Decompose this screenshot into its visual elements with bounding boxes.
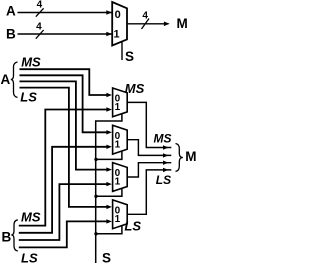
- brace for M bundle: [176, 144, 183, 172]
- svg-text:S: S: [102, 251, 111, 265]
- svg-text:M: M: [185, 149, 196, 164]
- arrowhead A.2 into mux2: [106, 130, 112, 134]
- wire S stub to mux U3: [96, 151, 122, 159]
- svg-text:4: 4: [142, 10, 148, 21]
- arrowhead B.LS into mux4: [106, 219, 112, 223]
- svg-text:B: B: [6, 26, 16, 41]
- wire A bit 3 to mux3 I0: [20, 81, 107, 169]
- wire mux U2 output to M bundle MS: [128, 102, 172, 147]
- arrowhead M bundle LS: [163, 168, 169, 172]
- svg-text:MS: MS: [21, 55, 41, 70]
- wire S stub to mux U5: [96, 226, 122, 234]
- mux U4 (bit 3 2x1 mux): [113, 163, 128, 192]
- arrowhead A.LS into mux4: [106, 205, 112, 209]
- wire B bit 3 to mux3 I1: [19, 184, 107, 240]
- arrowhead B.2 into mux2: [106, 145, 112, 149]
- wire mux U3 output to M bundle bit2: [128, 140, 172, 156]
- arrowhead A into mux I0: [106, 10, 112, 15]
- wire M output (top): [128, 23, 169, 25]
- arrowhead M bundle MS: [163, 145, 169, 149]
- arrowhead M bundle bit2: [163, 153, 169, 157]
- svg-text:M: M: [177, 16, 188, 31]
- svg-text:1: 1: [115, 139, 121, 150]
- wire B bit LS to mux4 I1: [19, 221, 107, 247]
- arrowhead B into mux I1: [106, 32, 112, 37]
- arrowhead B.3 into mux3: [106, 182, 112, 186]
- wire A bit LS to mux4 I0: [20, 88, 107, 207]
- arrowhead M bundle bit3: [163, 161, 169, 165]
- svg-text:MS: MS: [21, 210, 41, 225]
- mux U1 (4-bit wide 2x1 mux): [112, 2, 127, 46]
- arrowhead A.MS into mux1: [106, 93, 112, 97]
- bus-width slash on M: [142, 19, 150, 30]
- wire B bit 2 to mux2 I1: [19, 147, 107, 233]
- mux U2 (bit MS 2x1 mux): [113, 88, 128, 117]
- svg-text:4: 4: [36, 22, 42, 33]
- svg-text:B: B: [2, 230, 12, 245]
- svg-text:MS: MS: [154, 132, 172, 146]
- wire A bit MS to mux1 I0: [20, 69, 107, 95]
- svg-text:S: S: [125, 49, 134, 64]
- svg-text:LS: LS: [20, 90, 37, 105]
- svg-text:MS: MS: [125, 81, 145, 96]
- brace for A bus expansion: [11, 62, 18, 97]
- wire B bus (top): [18, 33, 112, 35]
- junction dot S/mux U4: [94, 195, 97, 198]
- brace for B bus expansion: [11, 220, 17, 251]
- svg-text:1: 1: [115, 214, 121, 225]
- svg-text:LS: LS: [156, 173, 171, 187]
- junction dot S/mux U5: [94, 232, 97, 235]
- wire S select vertical: [96, 114, 122, 263]
- mux U3 (bit 2 2x1 mux): [113, 125, 128, 154]
- arrowhead A.3 into mux3: [106, 167, 112, 171]
- svg-text:0: 0: [115, 9, 121, 21]
- mux U5 (bit LS 2x1 mux): [113, 200, 128, 229]
- svg-text:1: 1: [115, 177, 121, 188]
- svg-text:1: 1: [114, 29, 120, 41]
- svg-text:LS: LS: [124, 219, 141, 234]
- svg-text:LS: LS: [21, 250, 38, 265]
- wire B bit MS to mux1 I1: [19, 110, 107, 226]
- svg-text:1: 1: [115, 102, 121, 113]
- wire S select stub (top mux): [121, 42, 123, 61]
- wire A bus (top): [18, 12, 112, 14]
- svg-text:4: 4: [37, 0, 43, 10]
- arrowhead B.MS into mux1: [106, 107, 112, 111]
- junction dot S/mux U3: [94, 158, 97, 161]
- bus-width slash on A: [36, 8, 44, 16]
- arrowhead M output: [164, 22, 170, 27]
- svg-text:A: A: [1, 72, 11, 87]
- wire mux U5 output to M bundle LS: [128, 170, 172, 214]
- wire S stub to mux U4: [96, 188, 122, 196]
- bus-width slash on B: [36, 30, 44, 39]
- svg-text:A: A: [6, 4, 16, 19]
- wire A bit 2 to mux2 I0: [20, 75, 107, 132]
- wire mux U4 output to M bundle bit3: [128, 163, 172, 177]
